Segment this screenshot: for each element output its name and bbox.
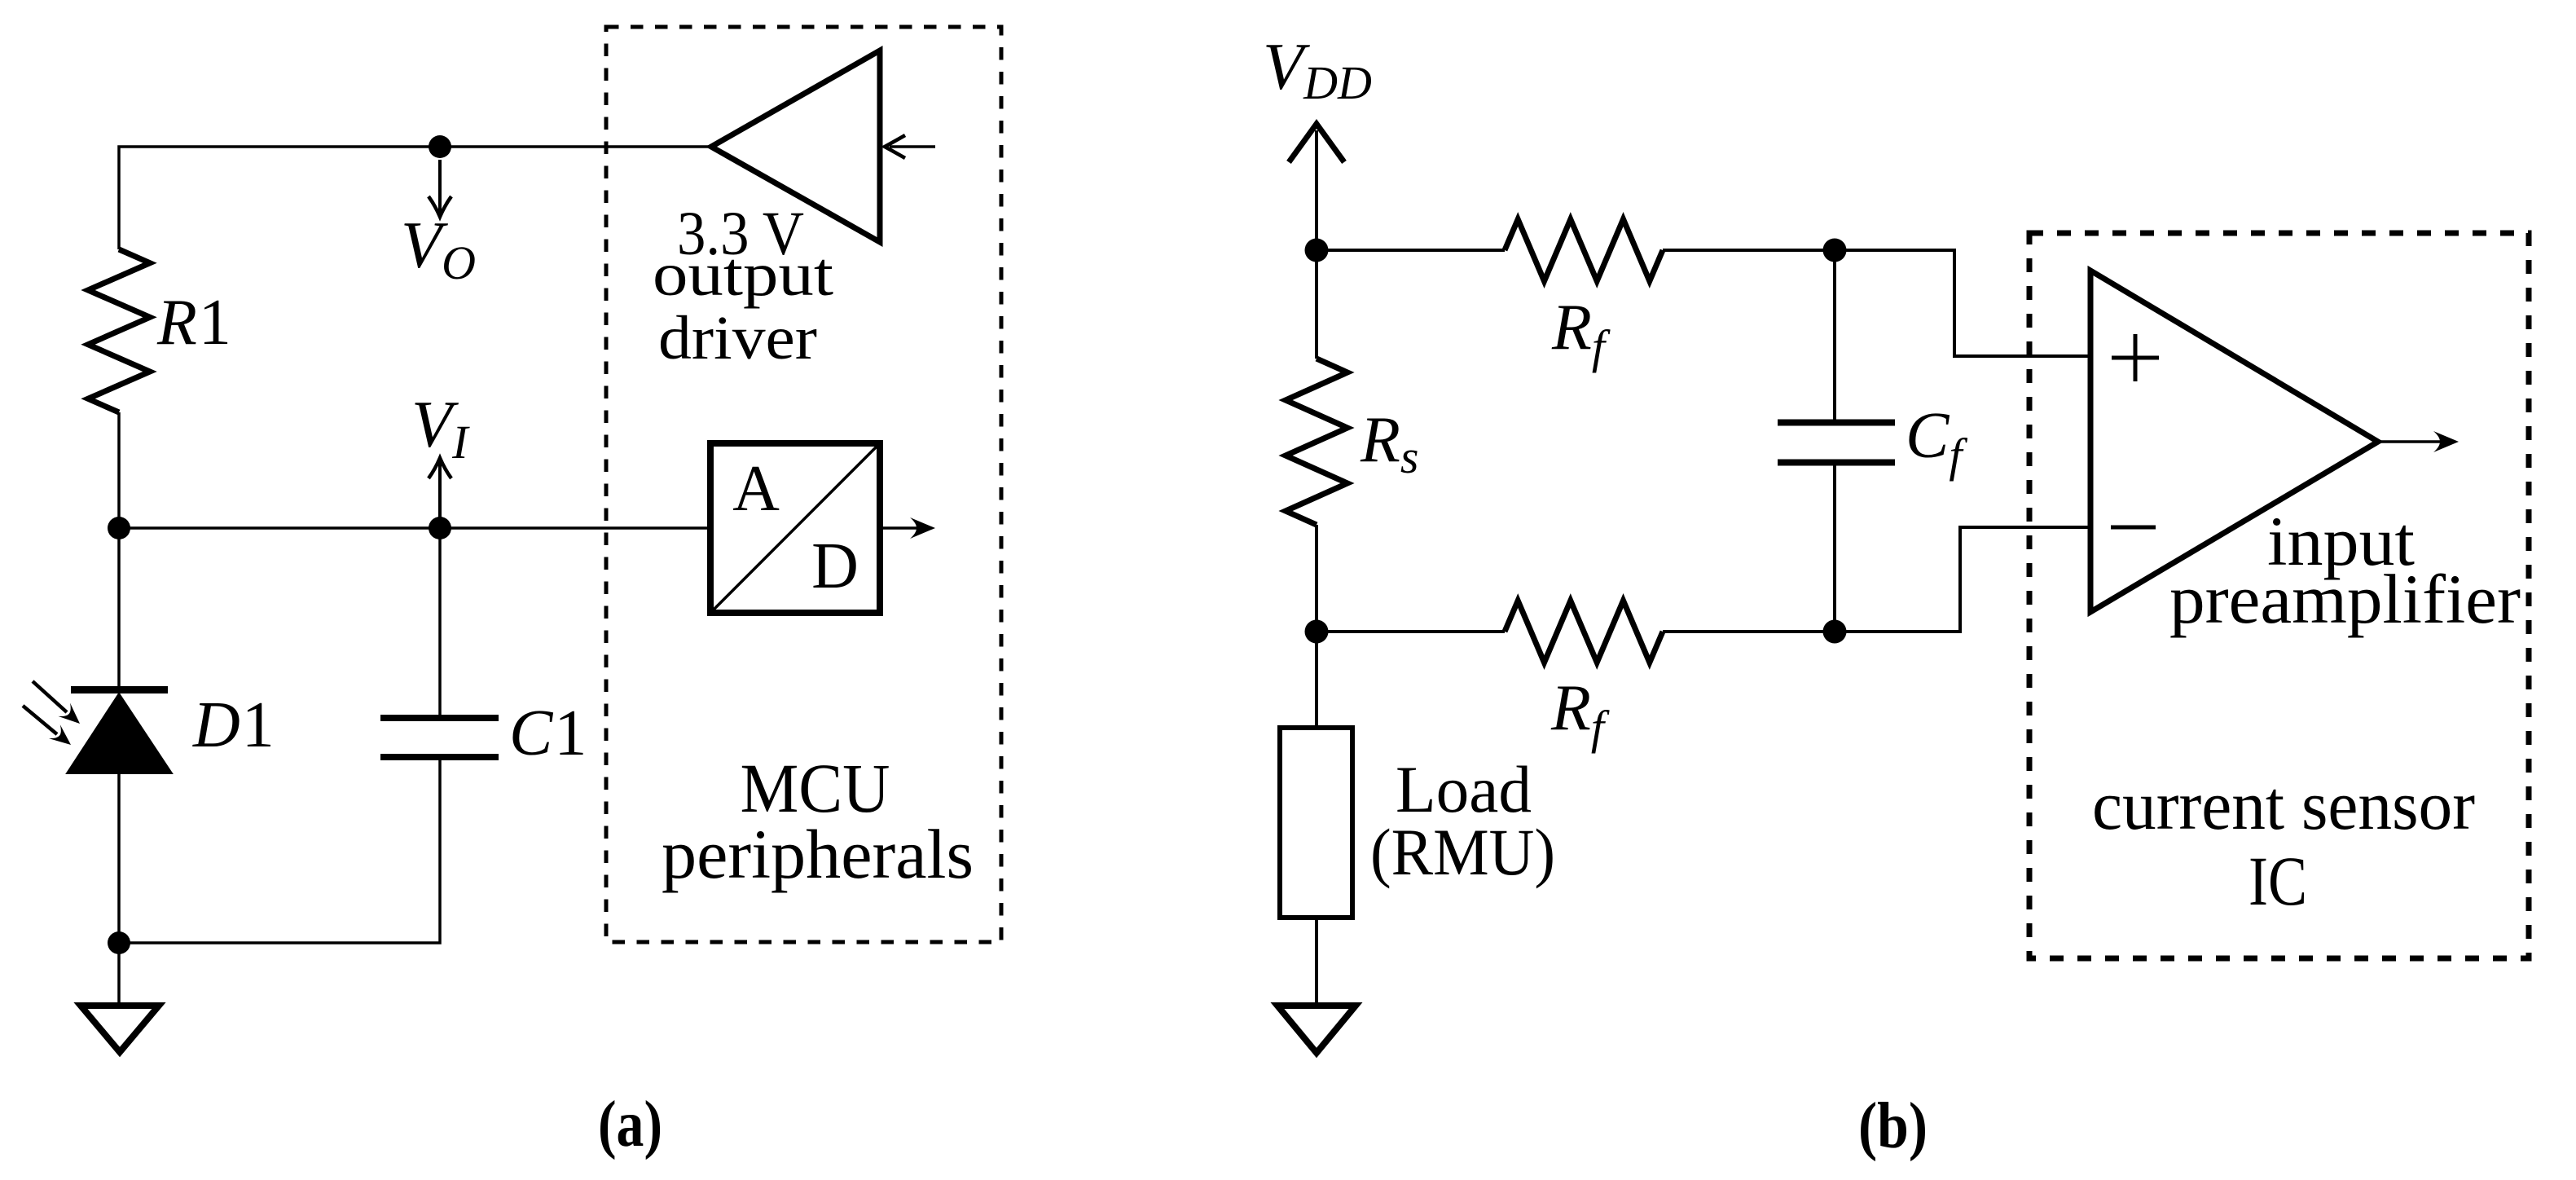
- ground (a): [81, 1006, 159, 1052]
- driver input arrow: [890, 145, 935, 148]
- arrow VI (up): [438, 460, 442, 528]
- svg-text:D1: D1: [192, 689, 275, 761]
- svg-text:A: A: [732, 453, 780, 525]
- wire Rs bottom lead: [1315, 525, 1318, 632]
- svg-text:R1: R1: [156, 287, 231, 359]
- wire bottom horizontal right segment: [1663, 630, 1835, 633]
- load box: [1280, 728, 1352, 918]
- wire Rs top lead: [1315, 250, 1318, 359]
- svg-text:(a): (a): [598, 1089, 662, 1160]
- capacitor Cf bottom plate: [1778, 460, 1895, 466]
- photodiode D1 cathode bar: [71, 686, 168, 693]
- arrow VO (down): [438, 160, 442, 214]
- svg-text:output: output: [653, 240, 833, 309]
- wire left vertical diode to ground: [117, 773, 121, 1008]
- ground (b): [1277, 1006, 1356, 1053]
- node b bottom-right: [1823, 620, 1847, 644]
- A/D output arrowhead: [910, 517, 935, 539]
- wire to + input: [1835, 250, 2090, 356]
- wire C1 upper branch: [438, 528, 442, 715]
- resistor R1: [88, 249, 150, 412]
- wire node to load: [1315, 632, 1318, 728]
- wire top horizontal right segment: [1663, 249, 1835, 252]
- op-amp U1: 3.3V output driver triangle: [711, 51, 880, 242]
- svg-text:current sensor: current sensor: [2092, 766, 2475, 844]
- dashed box current sensor IC: [2029, 233, 2529, 958]
- svg-text:peripherals: peripherals: [662, 815, 974, 893]
- capacitor C1 top plate: [380, 715, 499, 721]
- wire load to ground: [1315, 918, 1318, 1008]
- op-amp output wire: [2378, 440, 2452, 443]
- A/D output wire: [883, 526, 929, 530]
- node b bottom-left: [1305, 620, 1329, 644]
- capacitor C1 bottom plate: [380, 754, 499, 760]
- dashed box MCU peripherals: [606, 27, 1001, 942]
- node VO: [429, 135, 451, 158]
- node b top-right: [1823, 239, 1847, 262]
- resistor Rf (bottom): [1505, 601, 1663, 663]
- light arrow 1: [33, 681, 67, 712]
- wire bottom horizontal + C1 lower branch: [119, 760, 440, 943]
- wire to - input: [1835, 527, 2090, 632]
- VDD arrowhead chevron: [1289, 124, 1344, 162]
- VDD arrow line: [1315, 130, 1318, 250]
- node VI: [429, 517, 451, 539]
- wire left vertical R1 bottom to photodiode: [117, 412, 121, 686]
- node bottom-left: [108, 931, 130, 954]
- wire Cf top lead: [1833, 250, 1836, 420]
- resistor Rs: [1286, 359, 1347, 525]
- op-amp input preamplifier triangle: [2090, 271, 2378, 612]
- photodiode D1 triangle: [67, 693, 172, 773]
- svg-text:IC: IC: [2249, 842, 2307, 920]
- svg-text:preamplifier: preamplifier: [2169, 560, 2521, 638]
- svg-text:(RMU): (RMU): [1370, 815, 1555, 889]
- wire Cf bottom lead: [1833, 465, 1836, 632]
- svg-text:driver: driver: [658, 304, 817, 372]
- minus sign: [2111, 526, 2156, 530]
- svg-text:D: D: [811, 531, 859, 602]
- node b top-left: [1305, 239, 1329, 262]
- A/D diagonal: [714, 447, 877, 610]
- wire top horizontal left segment: [1317, 249, 1505, 252]
- svg-text:C1: C1: [509, 698, 587, 769]
- resistor Rf (top): [1505, 219, 1663, 281]
- A/D converter box: [710, 443, 880, 613]
- op-amp output arrowhead: [2433, 431, 2459, 452]
- light arrow 2: [23, 706, 57, 734]
- svg-text:(b): (b): [1858, 1090, 1928, 1162]
- plus sign: [2112, 334, 2159, 381]
- wire middle horizontal to A/D: [119, 526, 707, 530]
- wire bottom horizontal left segment: [1317, 630, 1505, 633]
- wire top-left corner: left vertical + top horizontal to driver apex: [119, 147, 711, 249]
- capacitor Cf top plate: [1778, 420, 1895, 426]
- node left-mid: [108, 517, 130, 539]
